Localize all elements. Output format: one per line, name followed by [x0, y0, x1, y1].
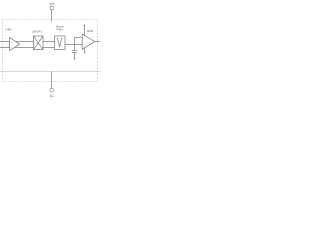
V- rail	[0, 71, 100, 73]
capacitor C1 bottom plate	[72, 52, 77, 54]
op-amp GM1	[10, 38, 20, 51]
wire IN- input	[0, 47, 12, 49]
notch filter box	[55, 36, 66, 50]
notch response symbol	[57, 38, 63, 47]
V+ pin terminal	[50, 6, 53, 9]
svg-text:Filter: Filter	[57, 27, 63, 31]
svg-text:GM1: GM1	[5, 28, 12, 32]
svg-text:GM2: GM2	[87, 29, 94, 33]
svg-text:V+: V+	[49, 2, 55, 7]
IC boundary dashed box	[3, 20, 98, 82]
wire GM2 to V+ arrow	[84, 26, 86, 36]
wire IN+ input	[0, 41, 12, 43]
wire upper branch to GM2	[74, 37, 84, 39]
op-amp GM2	[82, 34, 95, 49]
capacitor lead down	[74, 53, 76, 59]
svg-text:CHOP1: CHOP1	[32, 29, 42, 33]
wire chopper to notch lower	[43, 47, 55, 49]
wire notch to GM2	[65, 44, 85, 46]
svg-text:V−: V−	[50, 93, 55, 98]
wire junction vertical	[74, 38, 76, 51]
arrow to V- below capacitor	[74, 58, 76, 60]
wire GM2 to V- arrow	[84, 48, 86, 52]
V- pin terminal	[50, 88, 54, 92]
wire V- pin up to rail	[51, 72, 53, 89]
wire OUT output	[95, 41, 100, 43]
wire GM1 to chopper lower	[15, 47, 34, 49]
wire chopper to notch upper	[43, 41, 55, 43]
chopper X symbol	[34, 36, 44, 50]
wire GM1 to chopper upper	[15, 41, 34, 43]
chopper CHOP1 box	[34, 36, 44, 50]
wire V+ pin down into boundary	[51, 10, 53, 22]
arrow to V+ above GM2	[84, 24, 86, 26]
capacitor C1 top plate	[72, 50, 77, 52]
arrow to V- below GM2	[84, 52, 86, 54]
